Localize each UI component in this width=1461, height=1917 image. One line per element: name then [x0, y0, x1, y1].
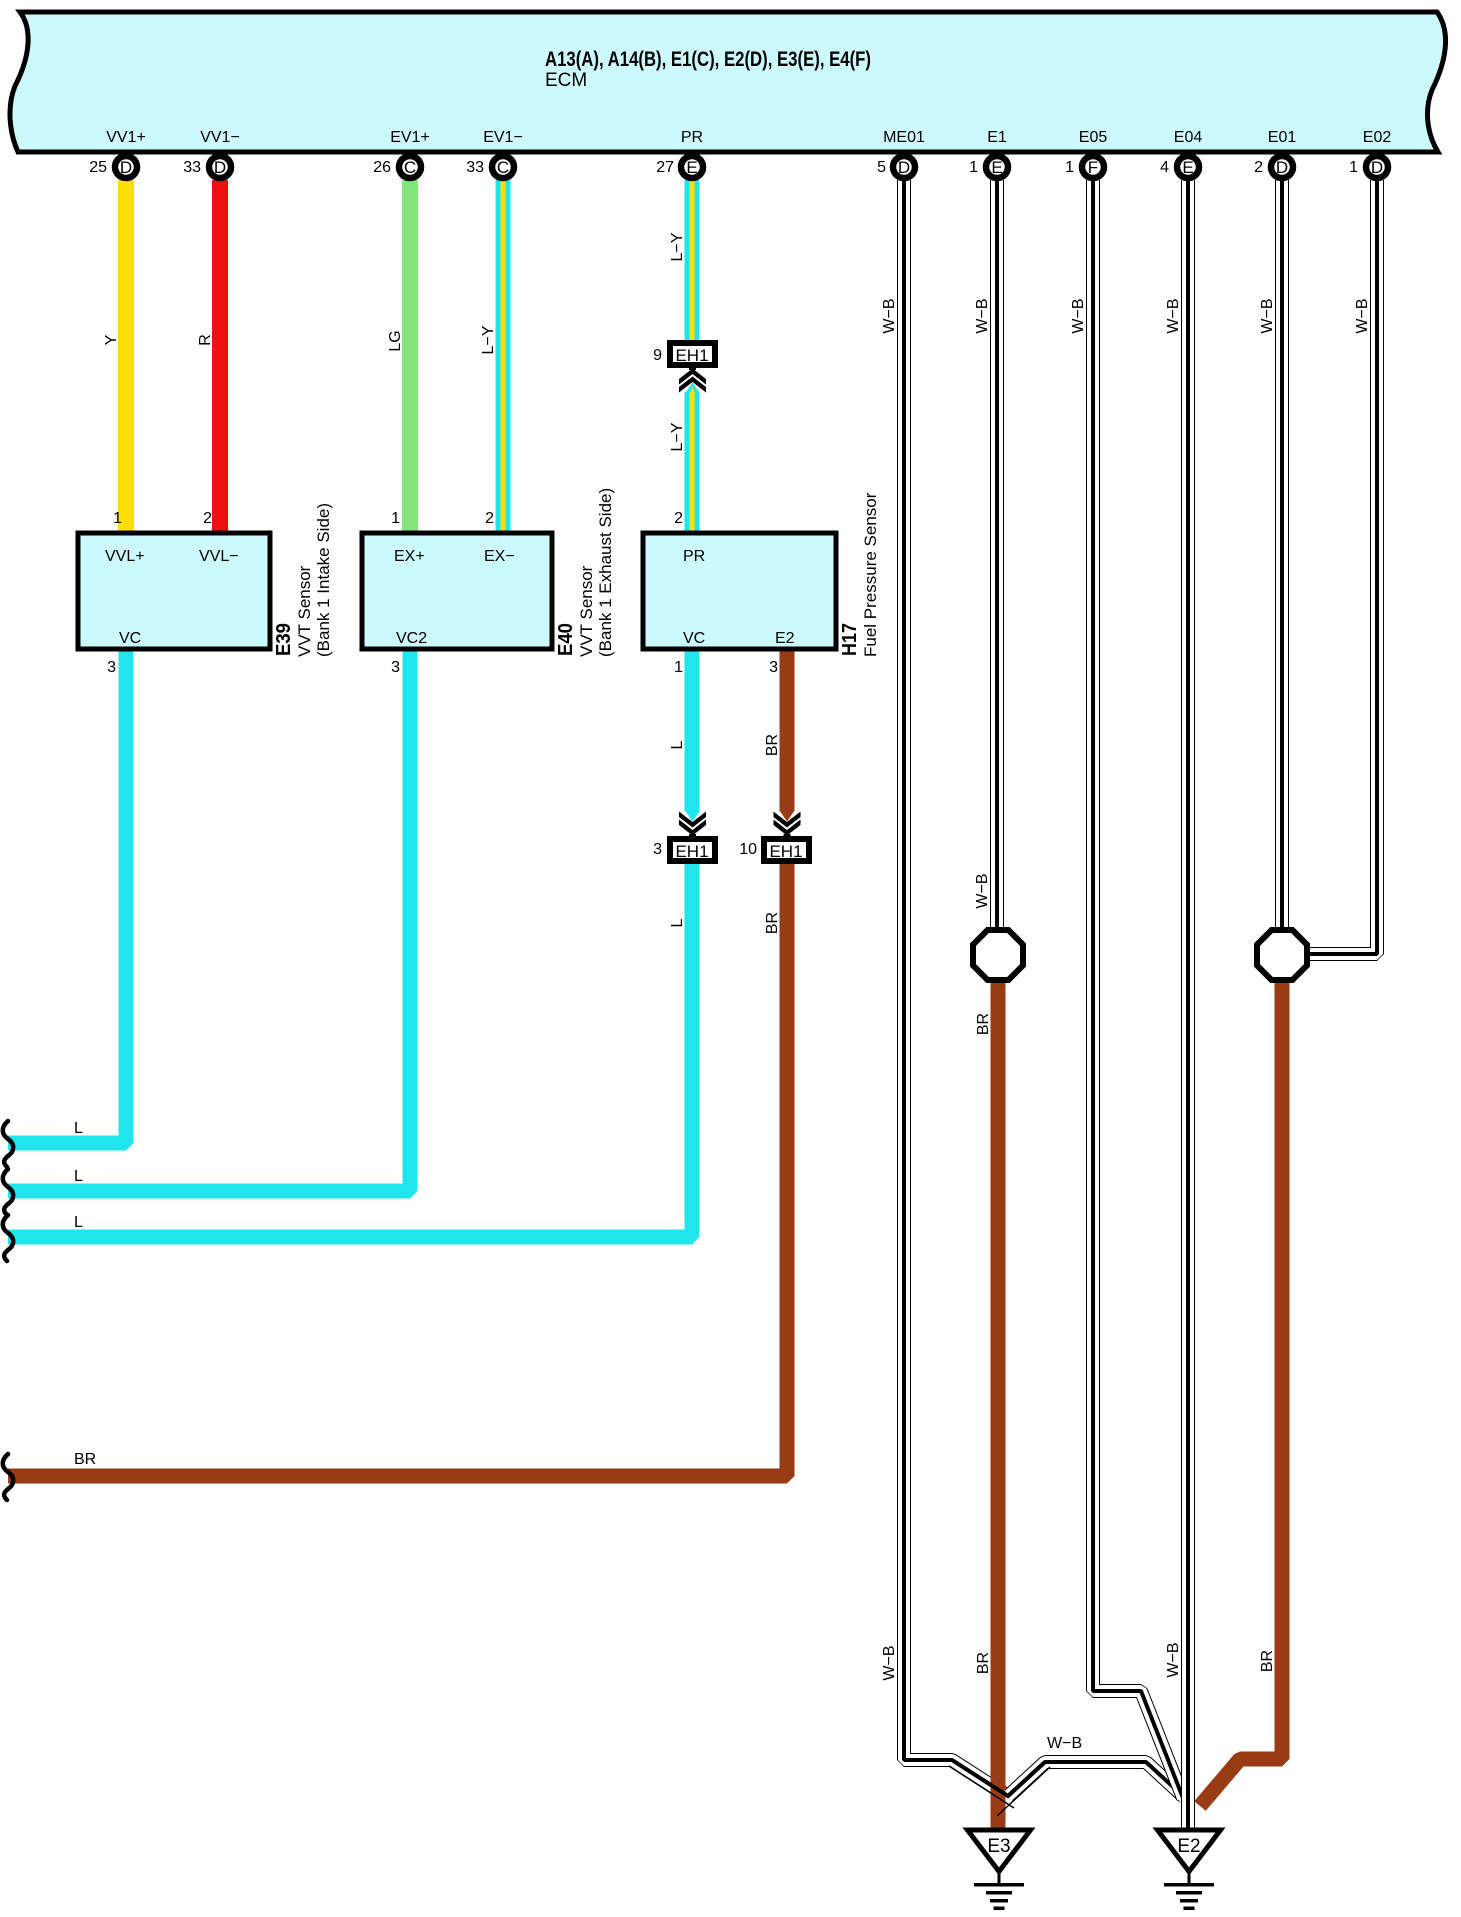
wire LG from EV1+ to E40 pin1	[402, 180, 418, 532]
svg-text:E04: E04	[1174, 129, 1203, 146]
svg-text:1: 1	[391, 510, 400, 527]
svg-text:L: L	[669, 918, 686, 927]
svg-text:4: 4	[1160, 159, 1169, 176]
break squiggle on L wire 2	[3, 1169, 14, 1215]
svg-text:VVT Sensor: VVT Sensor	[577, 565, 596, 657]
svg-text:ME01: ME01	[883, 129, 925, 146]
svg-text:E: E	[1182, 158, 1193, 177]
svg-text:W−B: W−B	[881, 1645, 898, 1680]
svg-text:W−B: W−B	[1165, 298, 1182, 333]
svg-text:EV1−: EV1−	[483, 129, 523, 146]
wire W-B link between E3 and E2 junctions	[1008, 1762, 1184, 1797]
svg-text:F: F	[1088, 158, 1098, 177]
svg-text:BR: BR	[1259, 1650, 1276, 1672]
svg-text:L: L	[74, 1168, 83, 1185]
wire Y from VV1+ to E39 pin1	[118, 180, 134, 532]
svg-text:EX−: EX−	[484, 548, 515, 565]
svg-text:Fuel Pressure Sensor: Fuel Pressure Sensor	[861, 492, 880, 657]
svg-text:A13(A), A14(B), E1(C), E2(D),: A13(A), A14(B), E1(C), E2(D), E3(E), E4(…	[545, 48, 871, 71]
svg-text:VV1−: VV1−	[200, 129, 240, 146]
svg-text:L: L	[74, 1214, 83, 1231]
wire W-B from E05 to E2 junction	[1093, 180, 1183, 1798]
svg-text:D: D	[1371, 158, 1383, 177]
svg-text:W−B: W−B	[1070, 298, 1087, 333]
wire color labels rotated	[103, 232, 1371, 1680]
pin circle 1 E	[986, 156, 1008, 178]
octagon splice on E1 wire	[973, 930, 1023, 980]
svg-text:C: C	[404, 158, 416, 177]
pin name labels	[106, 129, 1391, 146]
svg-text:VV1+: VV1+	[106, 129, 146, 146]
svg-text:L−Y: L−Y	[669, 232, 686, 261]
svg-text:(Bank 1 Intake Side): (Bank 1 Intake Side)	[314, 503, 333, 657]
svg-text:EH1: EH1	[675, 346, 708, 365]
pin circle 25 D	[115, 156, 137, 178]
svg-text:27: 27	[656, 159, 674, 176]
svg-text:E05: E05	[1079, 129, 1108, 146]
svg-text:2: 2	[485, 510, 494, 527]
wire BR from EH1 pin10 to left edge	[8, 862, 787, 1476]
svg-text:C: C	[497, 158, 509, 177]
svg-text:1: 1	[674, 659, 683, 676]
svg-text:W−B: W−B	[1047, 1735, 1082, 1752]
svg-text:1: 1	[113, 510, 122, 527]
svg-text:1: 1	[1065, 159, 1074, 176]
break squiggle on BR wire	[3, 1454, 14, 1500]
break squiggle on L wire 1	[3, 1121, 14, 1167]
svg-text:3: 3	[391, 659, 400, 676]
pin numbers	[89, 159, 1358, 176]
svg-text:PR: PR	[683, 548, 705, 565]
wire L-Y from EV1- to E40 pin2	[496, 180, 511, 532]
svg-text:BR: BR	[764, 734, 781, 756]
svg-text:2: 2	[203, 510, 212, 527]
svg-text:W−B: W−B	[1259, 298, 1276, 333]
svg-text:L: L	[74, 1120, 83, 1137]
svg-text:25: 25	[89, 159, 107, 176]
svg-text:L−Y: L−Y	[480, 325, 497, 354]
wire L-Y from EH1 pin9 to H17 pin2	[685, 383, 700, 533]
svg-text:VC2: VC2	[396, 630, 427, 647]
svg-text:33: 33	[183, 159, 201, 176]
octagon splice on E01 wire	[1257, 930, 1307, 980]
svg-text:EH1: EH1	[675, 842, 708, 861]
svg-text:(Bank 1 Exhaust Side): (Bank 1 Exhaust Side)	[596, 488, 615, 657]
chevrons below EH1 9 pointing up	[689, 364, 696, 370]
wire L from E39 VC pin3 to left edge	[8, 651, 126, 1143]
svg-text:E: E	[991, 158, 1002, 177]
svg-text:EH1: EH1	[769, 842, 802, 861]
svg-text:PR: PR	[681, 129, 703, 146]
svg-text:2: 2	[674, 510, 683, 527]
connector EH1 pin 3 on L wire	[653, 839, 715, 861]
ground E2	[1158, 1830, 1221, 1910]
svg-text:E02: E02	[1363, 129, 1392, 146]
svg-text:W−B: W−B	[881, 298, 898, 333]
svg-text:W−B: W−B	[1165, 1642, 1182, 1677]
chevrons above EH1 10 pointing down	[784, 834, 791, 840]
svg-text:EV1+: EV1+	[390, 129, 430, 146]
svg-text:5: 5	[877, 159, 886, 176]
chevrons above EH1 3 pointing down	[689, 834, 696, 840]
pin circle 33 C	[492, 156, 514, 178]
svg-text:26: 26	[373, 159, 391, 176]
svg-text:33: 33	[466, 159, 484, 176]
svg-text:BR: BR	[764, 912, 781, 934]
sensor box H17 Fuel Pressure Sensor	[643, 492, 880, 676]
svg-text:VVL+: VVL+	[105, 548, 145, 565]
connector EH1 pin 9 on PR wire	[653, 343, 715, 365]
svg-text:L−Y: L−Y	[669, 422, 686, 451]
horizontal labels	[74, 1120, 1082, 1752]
svg-text:E2: E2	[775, 630, 795, 647]
svg-text:D: D	[214, 158, 226, 177]
svg-text:9: 9	[653, 347, 662, 364]
svg-text:E1: E1	[987, 129, 1007, 146]
svg-text:1: 1	[1349, 159, 1358, 176]
wire W-B from E02 to octagon splice	[1310, 180, 1377, 954]
wire W-B from E04 to E2 ground	[1181, 180, 1195, 1828]
svg-text:LG: LG	[387, 330, 404, 351]
svg-text:D: D	[898, 158, 910, 177]
connector EH1 pin 10 on BR wire	[739, 839, 809, 861]
pin circle 2 D	[1271, 156, 1293, 178]
svg-text:E01: E01	[1268, 129, 1297, 146]
svg-text:Y: Y	[103, 334, 120, 345]
svg-text:W−B: W−B	[1354, 298, 1371, 333]
svg-text:10: 10	[739, 841, 757, 858]
break squiggle on L wire 3	[3, 1215, 14, 1261]
svg-text:E3: E3	[987, 1836, 1010, 1857]
sensor box E39 VVT Sensor (Bank 1 Intake Side)	[78, 503, 333, 676]
svg-text:VVT Sensor: VVT Sensor	[295, 565, 314, 657]
svg-text:2: 2	[1254, 159, 1263, 176]
svg-text:VC: VC	[119, 630, 141, 647]
wire BR from H17 E2 pin3 to EH1 pin10	[780, 651, 795, 811]
wire BR from splice to E2 junction	[1200, 977, 1282, 1806]
svg-text:3: 3	[107, 659, 116, 676]
svg-text:3: 3	[653, 841, 662, 858]
svg-text:VC: VC	[683, 630, 705, 647]
svg-text:ECM: ECM	[545, 70, 587, 91]
pin circle 1 F	[1082, 156, 1104, 178]
svg-text:L: L	[669, 740, 686, 749]
pin circle 1 D	[1366, 156, 1388, 178]
svg-text:E: E	[686, 158, 697, 177]
svg-text:E39: E39	[273, 623, 295, 656]
svg-text:H17: H17	[839, 623, 861, 656]
ground E3	[968, 1830, 1031, 1910]
wire L-Y from PR to EH1 pin9	[685, 180, 700, 345]
svg-text:BR: BR	[74, 1451, 96, 1468]
svg-text:1: 1	[969, 159, 978, 176]
svg-text:BR: BR	[975, 1652, 992, 1674]
svg-text:3: 3	[769, 659, 778, 676]
E3 junction crossing lines over BR	[949, 1760, 1050, 1816]
svg-text:R: R	[197, 334, 214, 346]
wire L from E40 VC2 pin3 to left edge	[8, 651, 410, 1191]
wire W-B from E1 to octagon splice	[990, 180, 1004, 935]
svg-text:D: D	[120, 158, 132, 177]
wire W-B from E01 to octagon splice	[1275, 180, 1289, 935]
pin circle 5 D	[893, 156, 915, 178]
svg-text:W−B: W−B	[974, 298, 991, 333]
ECM connector band A13(A),A14(B),E1(C),E2(D),E3(E),E4(F)	[10, 12, 1446, 152]
svg-text:VVL−: VVL−	[199, 548, 239, 565]
svg-text:W−B: W−B	[974, 873, 991, 908]
svg-text:D: D	[1276, 158, 1288, 177]
wire BR from splice to E3 ground	[991, 978, 1006, 1828]
svg-text:BR: BR	[975, 1013, 992, 1035]
wire W-B from ME01 to E3 ground	[904, 180, 1008, 1796]
pin circle 4 E	[1177, 156, 1199, 178]
wire L from H17 VC pin1 to EH1 pin3	[685, 651, 700, 811]
wire L from EH1 pin3 to left edge	[8, 862, 692, 1237]
svg-text:EX+: EX+	[394, 548, 425, 565]
svg-text:E40: E40	[555, 623, 577, 656]
wire R from VV1- to E39 pin2	[212, 180, 228, 532]
pin circle 33 D	[209, 156, 231, 178]
sensor box E40 VVT Sensor (Bank 1 Exhaust Side)	[362, 488, 615, 676]
pin circle 26 C	[399, 156, 421, 178]
svg-text:E2: E2	[1177, 1836, 1200, 1857]
pin circle 27 E	[681, 156, 703, 178]
